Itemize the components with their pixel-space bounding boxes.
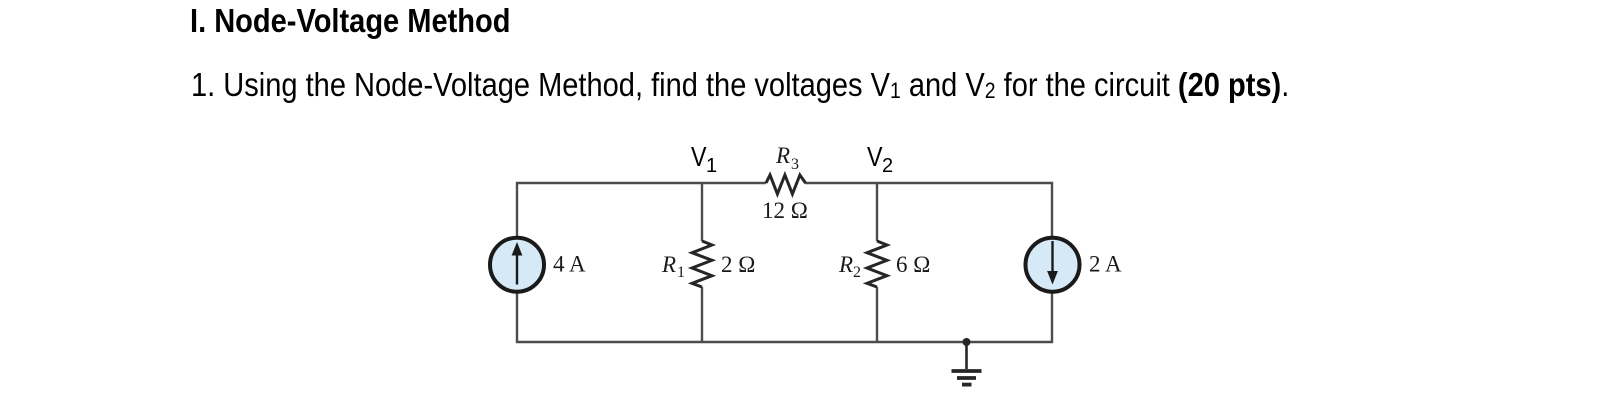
wire top left: node V1 to top-left corner [517, 183, 766, 237]
section title [190, 2, 554, 40]
svg-text:2 A: 2 A [1089, 252, 1122, 277]
resistor R3 zigzag [766, 175, 806, 194]
current source I1 circle [490, 238, 544, 292]
svg-text:2: 2 [882, 155, 893, 177]
wire bottom [517, 292, 1052, 342]
ground symbol [952, 342, 982, 385]
problem statement [191, 66, 1439, 104]
svg-text:1: 1 [706, 155, 717, 177]
label R3 [775, 143, 799, 173]
svg-text:2 Ω: 2 Ω [721, 252, 755, 277]
label R2 [838, 252, 861, 281]
svg-text:4 A: 4 A [553, 252, 586, 277]
wire branch V2 upper [876, 183, 878, 241]
svg-text:12 Ω: 12 Ω [762, 198, 808, 223]
resistor R2 zigzag [867, 241, 887, 287]
svg-text:6 Ω: 6 Ω [896, 252, 930, 277]
wire branch V1 lower [701, 287, 703, 342]
wire top right: node V2 to top-right corner [805, 183, 1052, 237]
svg-text:R: R [661, 252, 676, 277]
svg-text:R: R [775, 143, 790, 168]
node V2 label [867, 141, 893, 177]
svg-text:1: 1 [677, 264, 685, 281]
resistor R1 zigzag [692, 241, 712, 287]
current source I2 arrow [1047, 241, 1058, 285]
wire branch V1 upper [701, 183, 703, 241]
svg-text:V: V [867, 141, 883, 172]
svg-text:V: V [691, 141, 707, 172]
current source I2 circle [1026, 238, 1080, 292]
svg-text:R: R [838, 252, 853, 277]
ground junction dot [963, 338, 971, 346]
svg-text:2: 2 [853, 264, 861, 281]
node V1 label [691, 141, 717, 177]
svg-text:3: 3 [791, 156, 799, 173]
wire branch V2 lower [876, 287, 878, 342]
label R1 [661, 252, 685, 281]
current source I1 arrow [512, 242, 523, 285]
